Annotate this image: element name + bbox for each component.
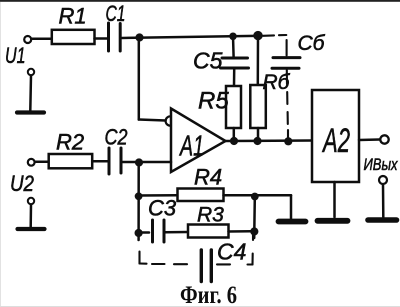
svg-text:R1: R1 bbox=[59, 4, 87, 29]
svg-text:С4: С4 bbox=[217, 239, 246, 265]
svg-text:R4: R4 bbox=[194, 165, 222, 190]
svg-text:Фиг. 6: Фиг. 6 bbox=[180, 282, 237, 307]
svg-text:А1: А1 bbox=[179, 131, 204, 163]
svg-text:R5: R5 bbox=[198, 88, 229, 115]
svg-text:C1: C1 bbox=[106, 1, 126, 26]
svg-text:U2: U2 bbox=[10, 171, 34, 196]
svg-text:А2: А2 bbox=[322, 122, 350, 160]
svg-text:Rб: Rб bbox=[263, 71, 291, 94]
svg-text:R2: R2 bbox=[56, 130, 84, 155]
svg-text:C3: C3 bbox=[148, 196, 177, 221]
svg-text:R3: R3 bbox=[197, 204, 224, 227]
svg-text:ИВых: ИВых bbox=[364, 155, 398, 174]
svg-text:C5: C5 bbox=[193, 48, 223, 74]
svg-text:C2: C2 bbox=[105, 125, 128, 150]
svg-text:Сб: Сб bbox=[298, 32, 326, 55]
svg-text:U1: U1 bbox=[5, 43, 26, 68]
